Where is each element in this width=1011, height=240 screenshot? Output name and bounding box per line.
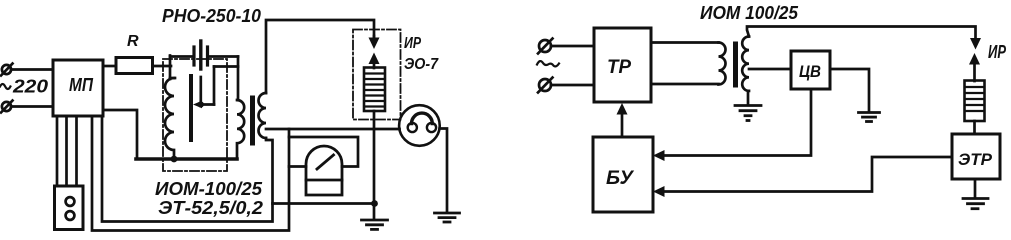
label ~220	[0, 76, 49, 97]
wire secondary tap to TsV	[749, 68, 791, 71]
capacitor plate left	[192, 47, 195, 65]
svg-text:ТР: ТР	[607, 57, 631, 78]
slider arrow	[193, 67, 238, 109]
wire secondary bottom to ground	[747, 91, 750, 104]
ground (right)	[435, 213, 460, 222]
svg-text:ЭТ-52,5/0,2: ЭТ-52,5/0,2	[158, 198, 263, 218]
svg-text:ИР: ИР	[404, 35, 421, 52]
wire capacitor to transformer primary top	[208, 55, 239, 58]
transformer secondary winding (right diagram)	[742, 37, 749, 91]
terminal X2 (input, bottom)	[1, 101, 13, 113]
wire secondary top to IR	[266, 20, 374, 93]
wire TsV right to ground	[830, 69, 869, 111]
capacitor plate right	[206, 47, 209, 65]
svg-text:220: 220	[12, 76, 49, 97]
transformer core bar	[250, 98, 255, 143]
plug socket box	[55, 186, 84, 230]
wire down to primary winding	[237, 57, 240, 101]
svg-text:ЭТР: ЭТР	[958, 150, 993, 169]
block TsV (ЦВ)	[791, 51, 830, 89]
svg-text:БУ: БУ	[606, 168, 635, 189]
spark gap IR down arrow (right)	[970, 38, 981, 50]
svg-text:R: R	[127, 33, 139, 50]
wire node to winding top	[169, 56, 172, 80]
thick bottom bus wire	[136, 157, 237, 161]
label ~ (ac)	[537, 61, 559, 66]
wire IR to ETR	[973, 121, 976, 134]
spark gap IR up arrow	[369, 53, 380, 69]
wire stub 2 into plug	[65, 116, 68, 186]
spark gap IR up arrow (right)	[969, 53, 980, 81]
ground (center)	[362, 220, 388, 229]
svg-text:ИОМ 100/25: ИОМ 100/25	[700, 3, 799, 23]
wire	[11, 68, 53, 71]
wire МП to R	[103, 65, 116, 68]
wire secondary top to IR (right)	[747, 27, 976, 39]
dashed box RNO-250-10	[163, 59, 227, 171]
wire	[11, 105, 53, 108]
transformer IOM secondary winding	[259, 93, 267, 138]
svg-text:ЭО-7: ЭО-7	[404, 56, 439, 73]
node dot ground junction	[371, 200, 378, 207]
capacitor plate middle	[199, 41, 202, 69]
dashed box IR	[353, 30, 401, 120]
wire secondary tap to EO-7	[266, 128, 400, 131]
block ETR (ЭТР)	[952, 134, 1000, 179]
slider bar of RNO	[189, 76, 193, 140]
terminal X1 (input, top)	[1, 64, 13, 76]
svg-text:ИОМ-100/25: ИОМ-100/25	[155, 179, 263, 199]
wire secondary bottom to inner bus	[102, 116, 273, 222]
wire IR to ground	[373, 111, 376, 219]
svg-text:ИР: ИР	[988, 42, 1007, 62]
block TR (ТР)	[594, 28, 651, 102]
wire stub 1 into plug	[56, 116, 59, 186]
spark gap IR down arrow	[369, 36, 380, 49]
svg-text:РНО-250-10: РНО-250-10	[162, 6, 261, 26]
wire winding top curl	[170, 77, 175, 80]
block MP (МП)	[53, 60, 103, 116]
transformer core bar (right)	[733, 44, 738, 85]
wire EO-7 right to ground	[440, 129, 447, 213]
oscilloscope EO-7	[399, 105, 440, 146]
tube resistor of IR right (hatched)	[965, 81, 985, 122]
ground (TsV)	[859, 113, 880, 122]
terminal X4 (bottom)	[538, 78, 553, 93]
wire R to node	[153, 65, 172, 68]
kilovoltmeter body	[306, 146, 342, 195]
wire	[551, 45, 594, 48]
svg-text:ЦВ: ЦВ	[799, 62, 821, 81]
autotransformer RNO winding	[165, 78, 174, 158]
wire middle plate tail to slider node	[199, 77, 202, 105]
tube resistor of IR (hatched)	[364, 68, 385, 112]
wire meter left lead	[289, 165, 306, 168]
block BU (БУ)	[593, 137, 653, 212]
wire TR to transformer top	[651, 41, 719, 44]
ground (ETR)	[963, 199, 988, 209]
wire BU to TR with arrow	[617, 103, 628, 137]
terminal X3 (top)	[538, 39, 553, 54]
wire stub 3 into plug	[75, 116, 78, 186]
wire ETR to ground	[974, 179, 977, 197]
svg-text:МП: МП	[69, 75, 94, 95]
plug pin hole bottom	[66, 211, 75, 220]
transformer primary winding (right diagram)	[719, 43, 726, 85]
resistor R	[116, 58, 153, 74]
wire meter branch / ground riser	[92, 116, 289, 231]
wire node to capacitor	[170, 55, 193, 58]
wire TsV bottom to BU with arrow	[653, 89, 811, 161]
wire	[551, 84, 594, 87]
wire МП lower to bottom bus	[103, 110, 137, 159]
node dot winding bottom	[171, 156, 178, 163]
wire meter right lead loop	[289, 137, 358, 167]
wire ETR to BU with arrow	[653, 157, 952, 197]
node dot slider	[198, 101, 204, 107]
transformer IOM primary winding	[237, 100, 244, 159]
wire ground bus H1	[273, 202, 376, 205]
wire TR to transformer bottom	[651, 83, 719, 86]
ground (transformer)	[735, 106, 761, 121]
plug pin hole top	[66, 197, 75, 206]
